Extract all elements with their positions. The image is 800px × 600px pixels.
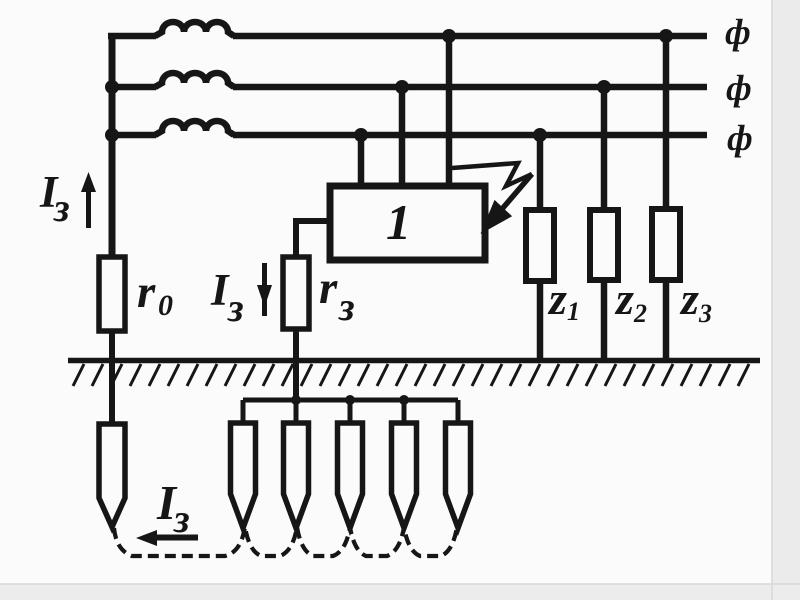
svg-text:ф: ф (725, 12, 751, 52)
svg-text:ф: ф (727, 118, 753, 158)
svg-text:1: 1 (386, 194, 411, 250)
svg-text:I: I (210, 265, 230, 315)
svg-text:z: z (547, 273, 567, 324)
svg-text:z: z (679, 273, 699, 324)
svg-text:з: з (53, 185, 70, 230)
svg-text:r: r (319, 262, 338, 314)
svg-text:z: z (614, 273, 634, 324)
svg-text:r: r (137, 266, 156, 318)
svg-text:з: з (338, 284, 355, 329)
svg-text:з: з (227, 285, 244, 330)
svg-text:0: 0 (158, 289, 173, 322)
svg-text:з: з (173, 496, 190, 541)
svg-text:1: 1 (567, 297, 580, 326)
svg-text:ф: ф (726, 68, 752, 108)
svg-text:3: 3 (698, 299, 712, 328)
svg-text:2: 2 (633, 299, 647, 328)
